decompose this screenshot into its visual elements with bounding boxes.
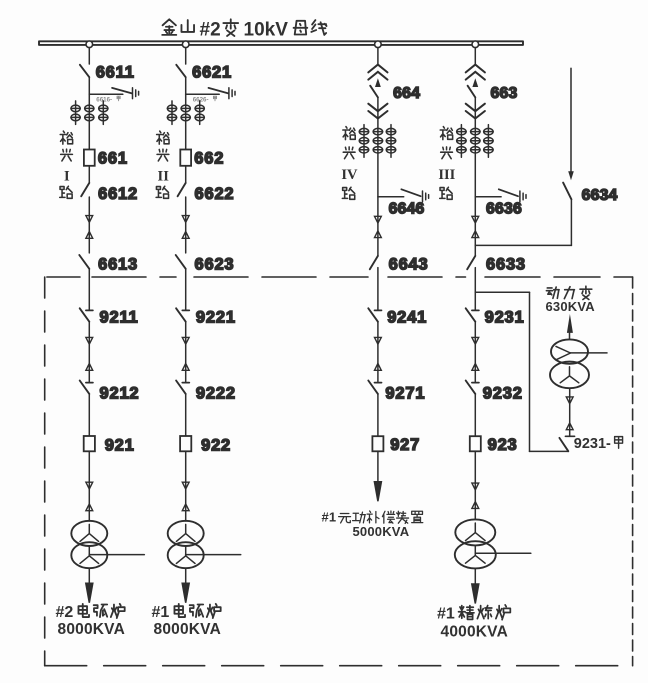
disconnector 9231-甲	[559, 438, 568, 451]
plug contact arrow up	[375, 364, 382, 371]
earthing switch 6626-jia branch wire	[186, 93, 220, 95]
svg-text:9231: 9231	[485, 308, 525, 326]
plug contact arrow down	[86, 216, 93, 223]
contact arrow of 6634	[568, 171, 574, 180]
svg-text:6616-: 6616-	[96, 96, 112, 103]
wire to furnace output arrow	[88, 568, 90, 584]
label 4000KVA	[441, 624, 508, 641]
svg-text:630KVA: 630KVA	[546, 299, 596, 314]
disconnector 6643	[370, 256, 378, 269]
label 630KVA	[546, 299, 596, 314]
wire busbar to 6611	[88, 48, 90, 64]
dashed enclosure right edge	[632, 277, 634, 666]
svg-text:6612: 6612	[98, 185, 138, 203]
disconnector 6612	[81, 183, 89, 196]
ground electrode 6616-jia	[133, 88, 139, 99]
plug contact arrow up	[375, 231, 382, 238]
furnace transformer #2 arc furnace feeder winding 1	[71, 521, 107, 546]
breaker 9211	[86, 309, 93, 311]
label 6626-jia	[193, 96, 209, 103]
ground electrode 6626-jia	[229, 88, 235, 99]
plug contact arrow down	[86, 482, 93, 489]
power transformer 动力变 winding 1	[551, 339, 588, 363]
wire 6612 to 6613	[88, 197, 90, 253]
disconnector 6633	[467, 256, 475, 269]
svg-text:6613: 6613	[98, 255, 138, 273]
breaker 9232	[472, 382, 479, 384]
voltage transformer group feeder reactive power compensation feeder	[359, 125, 395, 158]
wire 6623 to 9221	[185, 269, 187, 310]
wire 6643 to 9241	[377, 268, 379, 310]
feeder name 裕兴IV路	[342, 127, 355, 200]
node busbar junction feeder #1 refining furnace feeder	[472, 41, 479, 48]
wire 6622 to 6623	[185, 197, 187, 253]
svg-text:661: 661	[98, 149, 128, 167]
wire transformer tail	[186, 554, 241, 556]
svg-text:8000KVA: 8000KVA	[58, 621, 125, 638]
wire 663 down through PT group	[474, 97, 476, 255]
busbar title 金山#2变10kV母线	[162, 19, 326, 40]
svg-text:#2: #2	[200, 20, 221, 41]
earthing switch 6636 blade	[499, 189, 518, 196]
svg-text:II: II	[158, 169, 170, 185]
svg-text:922: 922	[201, 436, 231, 454]
label #2电弧炉	[56, 604, 74, 621]
svg-text:9271: 9271	[385, 384, 425, 402]
feeder name 裕兴I路	[60, 131, 73, 198]
plug contact arrow down	[472, 483, 479, 490]
breaker 9271	[375, 382, 382, 384]
wire transformer tail	[89, 554, 144, 556]
circuit breaker 927 box	[372, 436, 383, 451]
wire busbar to 6621	[185, 48, 187, 64]
wire 9231-jia up to power transformer	[569, 388, 571, 436]
ground electrode 6646	[423, 191, 429, 202]
wire 6613 to 9211	[88, 269, 90, 310]
svg-text:9221: 9221	[196, 308, 236, 326]
feeder name 裕兴II路	[156, 131, 169, 198]
breaker 9221	[182, 309, 189, 311]
svg-text:9232: 9232	[483, 384, 523, 402]
plug contact arrow down	[472, 216, 479, 223]
earthing switch 6616-jia branch wire	[89, 93, 123, 95]
wire tap vertical	[529, 292, 531, 451]
power transformer tail	[571, 352, 608, 354]
disconnector 6623	[176, 255, 186, 269]
wire 9212 to 921	[88, 394, 90, 436]
svg-text:6623: 6623	[195, 255, 235, 273]
plug contact arrow down	[182, 216, 189, 223]
wire 6634 down to feeder III connector	[570, 199, 572, 245]
wire 9231 to 9232	[474, 322, 476, 382]
svg-text:9211: 9211	[100, 308, 139, 326]
refining furnace transformer winding 2	[455, 541, 496, 568]
dashed enclosure left edge	[44, 277, 46, 666]
svg-text:6633: 6633	[486, 256, 526, 274]
svg-text:927: 927	[390, 436, 420, 454]
earthing switch 6626-jia blade	[209, 88, 229, 94]
label 6616-jia	[96, 96, 112, 103]
disconnector 6621	[176, 65, 185, 77]
svg-text:6622: 6622	[195, 185, 235, 203]
plug contact arrow down	[182, 482, 189, 489]
plug contact arrow up	[86, 364, 93, 371]
wire 6633 to 9231	[474, 268, 476, 310]
voltage transformer group feeder #1 arc furnace feeder	[167, 101, 204, 125]
plug contact arrow up	[472, 502, 479, 509]
dashed enclosure top edge	[47, 276, 633, 278]
svg-text:#1: #1	[437, 606, 455, 623]
circuit breaker 922 box	[180, 436, 191, 451]
earthing switch 6646 branch wire	[378, 196, 404, 198]
label 8000KVA	[58, 621, 125, 638]
earthing switch 6616-jia blade	[112, 88, 132, 94]
furnace transformer #1 arc furnace feeder winding 2	[168, 542, 204, 568]
circuit breaker 923 box	[470, 436, 481, 451]
svg-text:#1: #1	[322, 509, 337, 524]
svg-text:8000KVA: 8000KVA	[154, 621, 221, 638]
wire to refining furnace arrow	[474, 568, 476, 584]
wire 9271 to 927	[377, 394, 379, 436]
plug contact arrow up	[182, 364, 189, 371]
wire 9241 to 9271	[377, 322, 379, 382]
drawout breaker 664	[368, 65, 387, 73]
wire connector 6634 to feeder III	[475, 244, 571, 246]
wire 9222 to 922	[185, 394, 187, 436]
svg-text:6621: 6621	[192, 64, 232, 82]
breaker 9212	[86, 382, 93, 384]
label 9231-甲	[574, 436, 611, 452]
breaker 9231	[472, 309, 479, 311]
wire 6621 to breaker 662	[185, 77, 187, 183]
refining furnace output arrow	[472, 584, 479, 604]
plug contact arrow up	[472, 231, 479, 238]
power transformer output arrow up	[567, 314, 573, 333]
refining furnace transformer winding 1	[455, 519, 495, 545]
svg-text:10kV: 10kV	[244, 20, 289, 41]
busbar 10kV	[39, 41, 523, 45]
svg-text:9212: 9212	[100, 384, 140, 402]
plug contact arrow down	[375, 337, 382, 344]
wire from top right to disconnector 6634	[570, 68, 572, 171]
plug contact arrow down	[375, 216, 382, 223]
plug contact arrow up	[182, 504, 189, 511]
furnace output arrow	[182, 583, 189, 603]
svg-text:921: 921	[105, 436, 135, 454]
svg-text:#1: #1	[152, 604, 170, 621]
svg-text:923: 923	[488, 436, 518, 454]
voltage transformer group feeder #1 refining furnace feeder	[457, 125, 493, 158]
svg-text:9222: 9222	[196, 384, 236, 402]
circuit breaker 661 box	[84, 150, 95, 166]
circuit breaker 921 box	[84, 436, 95, 451]
furnace transformer #2 arc furnace feeder winding 2	[71, 542, 107, 568]
plug contact arrow up	[566, 423, 573, 430]
svg-text:IV: IV	[341, 167, 358, 183]
voltage transformer group feeder #2 arc furnace feeder	[71, 101, 108, 125]
wire 923 to refining furnace transformer	[474, 451, 476, 519]
furnace transformer #1 arc furnace feeder winding 1	[168, 521, 204, 546]
wire 9221 to 9222	[185, 322, 187, 382]
feeder name 裕兴III路	[440, 127, 453, 200]
wire busbar to drawout breaker 663	[474, 48, 476, 65]
wire tap horizontal to 9231-jia	[530, 450, 569, 452]
svg-text:6626-: 6626-	[193, 96, 209, 103]
furnace output arrow	[86, 583, 93, 603]
plug contact arrow up	[182, 232, 189, 239]
power transformer output wire	[569, 333, 571, 340]
label 8000KVA	[154, 621, 221, 638]
svg-text:663: 663	[491, 85, 518, 102]
plug contact arrow down	[86, 337, 93, 344]
svg-text:I: I	[64, 169, 70, 185]
compensation output arrow	[374, 482, 381, 502]
breaker 9241	[375, 309, 382, 311]
label 5000KVA	[353, 524, 410, 539]
svg-text:9231-: 9231-	[574, 436, 611, 452]
plug contact arrow up	[86, 232, 93, 239]
plug contact arrow down	[182, 337, 189, 344]
wire 921 to furnace transformer	[88, 451, 90, 521]
wire 927 to compensation output arrow	[377, 451, 379, 485]
plug contact arrow up	[472, 364, 479, 371]
svg-text:6643: 6643	[389, 256, 429, 274]
svg-text:4000KVA: 4000KVA	[441, 624, 508, 641]
wire 9232 to 923	[474, 394, 476, 436]
label #1无功补偿装置	[322, 509, 337, 524]
dashed enclosure bottom edge	[45, 665, 633, 667]
breaker 9222	[182, 382, 189, 384]
svg-text:9241: 9241	[387, 308, 427, 326]
power transformer 动力变 winding 2	[550, 362, 589, 389]
plug contact arrow down	[472, 337, 479, 344]
svg-text:5000KVA: 5000KVA	[353, 524, 410, 539]
ground electrode 6636	[520, 191, 526, 202]
svg-text:III: III	[438, 167, 455, 183]
svg-text:#2: #2	[56, 604, 74, 621]
svg-text:662: 662	[194, 149, 224, 167]
label #1精炼炉	[437, 606, 455, 623]
plug contact arrow up	[86, 504, 93, 511]
svg-text:6611: 6611	[96, 64, 135, 82]
wire busbar to drawout breaker 664	[377, 48, 379, 65]
node busbar junction feeder #1 arc furnace feeder	[182, 41, 189, 48]
node busbar junction feeder #2 arc furnace feeder	[86, 41, 93, 48]
wire 6611 to breaker 661	[88, 77, 90, 183]
wire 9211 to 9212	[88, 322, 90, 382]
label #1电弧炉	[152, 604, 170, 621]
svg-text:6636: 6636	[486, 201, 522, 218]
disconnector 6622	[178, 183, 186, 196]
circuit breaker 662 box	[180, 150, 191, 166]
wire transformer tail	[475, 552, 531, 554]
disconnector 6611	[80, 65, 89, 77]
svg-text:664: 664	[393, 85, 420, 102]
label 动力变	[546, 286, 591, 299]
wire 664 down through PT group	[377, 97, 379, 255]
drawout breaker 663	[466, 65, 485, 73]
wire to furnace output arrow	[185, 568, 187, 584]
earthing switch 6646 blade	[401, 189, 420, 196]
svg-text:6634: 6634	[582, 187, 618, 204]
earthing switch 6636 branch wire	[475, 196, 501, 198]
plug contact arrow down	[566, 397, 573, 404]
node busbar junction feeder reactive power compensation feeder	[375, 41, 382, 48]
svg-text:6646: 6646	[389, 201, 425, 218]
disconnector 6634	[563, 183, 571, 200]
wire tap from feeder III to power transformer branch	[475, 291, 529, 293]
disconnector 6613	[79, 255, 89, 269]
wire 922 to furnace transformer	[185, 451, 187, 521]
